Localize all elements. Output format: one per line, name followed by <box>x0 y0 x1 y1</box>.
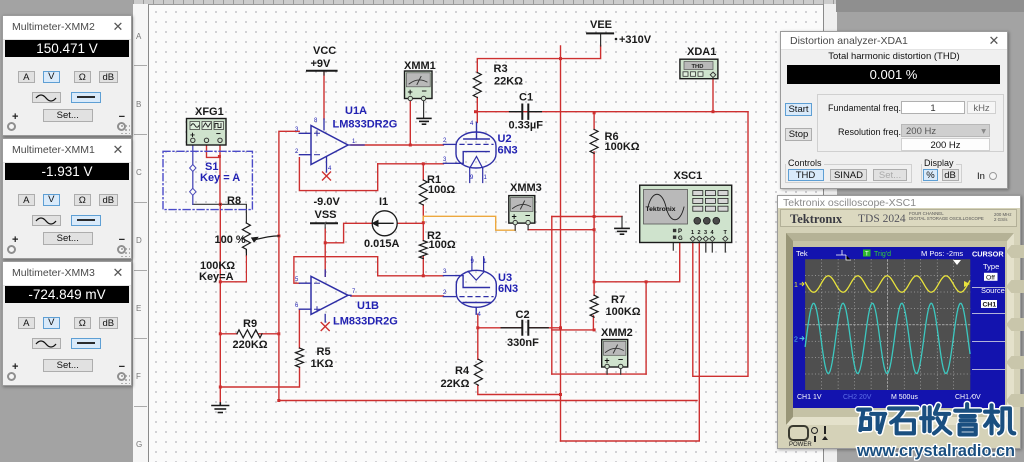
ground G3 (near scope) <box>615 228 629 234</box>
svg-text:2: 2 <box>443 138 447 144</box>
svg-text:I1: I1 <box>379 196 388 208</box>
resistor R2 <box>419 241 427 259</box>
wire xmm2 sense vertical <box>551 217 553 375</box>
wire VEE to R3 top <box>477 46 600 73</box>
wire U1A inv input feedback to cathode line <box>299 158 377 191</box>
wire R6 leads <box>593 113 595 217</box>
svg-text:100 %: 100 % <box>215 234 246 246</box>
wire XFG1 minus down to R8 top <box>219 145 221 204</box>
wire scope stubs 3 4 T <box>706 243 726 253</box>
XMM1 icon <box>405 71 433 101</box>
svg-text:CURSOR: CURSOR <box>972 250 1004 259</box>
svg-text:4: 4 <box>478 312 482 318</box>
wire U2 cathode line with R1 <box>378 163 444 165</box>
tube U3 <box>443 257 493 315</box>
XFG1 icon <box>187 119 227 146</box>
XMM2 icon <box>602 340 628 369</box>
svg-text:LM833DR2G: LM833DR2G <box>333 119 398 131</box>
wire VSS step to I1 <box>325 223 373 243</box>
blue labels <box>200 105 518 328</box>
svg-text:5: 5 <box>295 277 299 283</box>
wire S1 to R8 black horizontal <box>193 204 247 223</box>
waveform ch1 yellow <box>805 276 970 292</box>
grid area <box>805 259 970 390</box>
svg-text:VSS: VSS <box>315 209 337 221</box>
wire R2 bottom lead <box>422 256 424 276</box>
wire I1 right to R1R2 node <box>397 222 424 224</box>
wire R8 bottom horizontal <box>220 281 246 283</box>
svg-text:XMM1: XMM1 <box>404 60 436 72</box>
resistor R7 <box>590 295 598 317</box>
svg-text:1: 1 <box>483 259 487 265</box>
svg-text:C2: C2 <box>516 309 530 321</box>
svg-text:Key = A: Key = A <box>200 172 240 184</box>
svg-text:3: 3 <box>443 269 447 275</box>
wire R1 bottom lead <box>422 205 424 223</box>
op-amp U1B <box>299 270 351 322</box>
svg-text:4: 4 <box>328 166 332 172</box>
application background <box>133 0 836 462</box>
wire XMM2 right vertical <box>645 282 647 374</box>
power VEE symbol <box>587 32 613 34</box>
wire scope ch2 route <box>561 243 700 441</box>
Distortion analyzer-XDA1 window <box>780 31 1008 189</box>
resistor R9 horizontal <box>237 330 262 338</box>
wire XMM3 minus <box>528 229 594 231</box>
svg-text:6: 6 <box>295 303 299 309</box>
svg-text:www.crystalradio.cn: www.crystalradio.cn <box>856 441 1015 460</box>
ground G2 (XMM1) <box>417 118 431 124</box>
svg-text:220KΩ: 220KΩ <box>233 339 268 351</box>
Multimeter-XMM1 window <box>2 138 132 259</box>
svg-text:0.015A: 0.015A <box>364 238 400 250</box>
svg-text:P: P <box>678 229 682 235</box>
capacitor C2 <box>501 321 548 335</box>
svg-text:9: 9 <box>471 259 475 265</box>
svg-text:R4: R4 <box>455 365 470 377</box>
wire U1A plus input net (from R8 wiper vertical) <box>279 131 299 400</box>
wire XMM2 stubs <box>607 367 621 375</box>
svg-text:22KΩ: 22KΩ <box>441 378 470 390</box>
svg-text:Key=A: Key=A <box>199 271 234 283</box>
svg-text:XMM3: XMM3 <box>510 182 542 194</box>
svg-text:1: 1 <box>794 282 798 289</box>
svg-text:1: 1 <box>352 139 356 145</box>
resistor R4 <box>474 359 482 385</box>
svg-text:U1A: U1A <box>345 105 367 117</box>
S1 dashed selection box <box>163 151 252 209</box>
current source I1 <box>372 211 398 236</box>
svg-text:8: 8 <box>314 118 318 124</box>
wire XMM2 horizontal <box>552 373 646 375</box>
svg-text:Type: Type <box>983 262 999 271</box>
wire XMM1 plus down to output line <box>409 99 411 145</box>
right menu <box>981 262 1005 295</box>
wire XDA1 drop <box>712 77 714 112</box>
wire R5 top to U1B plus input <box>298 309 300 348</box>
resistor R6 <box>590 129 598 153</box>
svg-text:−: − <box>216 129 221 139</box>
wire node XFG-R8 vertical to ground <box>219 204 221 403</box>
right arrow buttons <box>1006 245 1024 258</box>
svg-text:XDA1: XDA1 <box>687 46 716 58</box>
svg-text:330nF: 330nF <box>507 337 539 349</box>
waveform ch2 cyan <box>805 303 970 373</box>
svg-text:+9V: +9V <box>311 58 332 70</box>
svg-text:G: G <box>678 236 683 242</box>
XDA1 icon <box>680 59 718 78</box>
svg-text:9: 9 <box>470 175 474 181</box>
no-connect X U1A <box>323 172 331 180</box>
wiper arrow <box>253 236 279 240</box>
wire VEE stub <box>600 33 602 46</box>
resistor R5 <box>296 348 304 367</box>
potentiometer R8 <box>220 204 279 281</box>
wire C2 left lead <box>478 327 522 329</box>
svg-text:T: T <box>865 252 869 258</box>
wire XFG1 mid terminal step <box>207 145 220 157</box>
svg-text:3: 3 <box>295 127 299 133</box>
Multimeter-XMM2 window <box>2 15 132 136</box>
Tektronix oscilloscope-XSC1 window <box>777 195 1021 449</box>
power VCC symbol <box>307 70 337 72</box>
no-connect X U1B <box>321 323 329 331</box>
svg-text:0.33µF: 0.33µF <box>509 120 544 132</box>
wire R7 net to scope G <box>594 243 680 282</box>
svg-text:−: − <box>525 211 530 221</box>
wire R7 top vertical <box>593 217 595 296</box>
svg-text:−: − <box>618 354 623 364</box>
watermark <box>840 390 1024 462</box>
Multimeter-XMM3 window <box>2 261 132 386</box>
svg-text:R8: R8 <box>227 195 241 207</box>
svg-text:CH1: CH1 <box>982 302 996 309</box>
wire XMM3 stubs <box>515 223 528 230</box>
svg-text:2: 2 <box>295 149 299 155</box>
wire scope ch1 route <box>693 112 748 377</box>
svg-text:+: + <box>408 87 413 97</box>
wire R9 left lead <box>220 333 237 335</box>
tube U2 <box>443 122 493 182</box>
wire R3 bottom lead / U2 plate <box>476 97 478 122</box>
capacitor C1 <box>510 105 542 119</box>
svg-text:100KΩ: 100KΩ <box>605 141 640 153</box>
wire R4 bottom to VEE vertical <box>478 385 561 394</box>
svg-text:VEE: VEE <box>590 19 612 31</box>
top marker <box>953 260 961 265</box>
node diamonds of S1 <box>190 165 196 196</box>
svg-text:6N3: 6N3 <box>498 283 518 295</box>
tiny blue pin numbers <box>295 118 488 318</box>
tube envelopes (drawn after internals for clean stroke) <box>456 132 496 168</box>
svg-text:M Pos: -2ms: M Pos: -2ms <box>921 249 963 258</box>
wire VEE long vertical <box>560 46 562 441</box>
svg-text:3: 3 <box>704 230 707 236</box>
svg-text:THD: THD <box>692 64 704 70</box>
svg-text:100Ω: 100Ω <box>429 239 456 251</box>
svg-text:Trig'd: Trig'd <box>874 251 891 258</box>
wire VCC down to U1A <box>323 71 325 119</box>
wire R1 top lead <box>422 164 424 180</box>
svg-text:6N3: 6N3 <box>498 145 518 157</box>
svg-text:+310V: +310V <box>619 34 652 46</box>
svg-text:R5: R5 <box>317 346 331 358</box>
wire bottom long feedback <box>279 400 697 402</box>
svg-text:3: 3 <box>443 157 447 163</box>
svg-text:1KΩ: 1KΩ <box>311 358 334 370</box>
svg-text:1: 1 <box>484 175 488 181</box>
svg-text:C1: C1 <box>519 92 533 104</box>
svg-text:7: 7 <box>352 289 356 295</box>
wire VCC stub <box>323 71 325 75</box>
switch S1 line <box>192 145 194 204</box>
svg-text:XFG1: XFG1 <box>195 106 224 118</box>
svg-text:R7: R7 <box>611 294 625 306</box>
svg-text:Off: Off <box>986 274 995 281</box>
svg-text:1: 1 <box>691 230 694 236</box>
svg-text:VCC: VCC <box>313 45 336 57</box>
POWER button <box>788 425 808 441</box>
svg-text:-9.0V: -9.0V <box>314 196 341 208</box>
wire R4 top lead <box>477 328 479 360</box>
wire C2 out to R7 bottom <box>552 316 594 330</box>
wire VSS down to U1B vcc pin <box>324 243 326 276</box>
resistor R3 <box>473 73 481 98</box>
svg-text:2: 2 <box>443 290 447 296</box>
svg-text:+: + <box>512 212 517 222</box>
svg-text:R9: R9 <box>243 318 257 330</box>
wire XMM1 minus to ground <box>423 99 425 118</box>
wire scope P jog <box>673 233 680 250</box>
wire R6 bottom net horizontal <box>552 216 622 218</box>
header strip <box>780 209 1017 227</box>
wire orange to XMM3 plus <box>423 216 515 230</box>
svg-text:−: − <box>422 86 427 96</box>
svg-text:CH1 1V: CH1 1V <box>797 394 822 401</box>
svg-text:22KΩ: 22KΩ <box>494 76 523 88</box>
svg-text:U1B: U1B <box>357 300 379 312</box>
wire R9 right lead <box>259 333 279 335</box>
XSC1 icon <box>640 185 732 242</box>
svg-text:U2: U2 <box>498 133 512 145</box>
svg-text:LM833DR2G: LM833DR2G <box>333 316 398 328</box>
wire U1A output to U2 grid <box>351 144 443 146</box>
wire U1B inv feedback <box>294 257 444 284</box>
wire U3 plate node down <box>477 314 479 328</box>
svg-text:XSC1: XSC1 <box>674 170 703 182</box>
svg-text:Tek: Tek <box>796 249 808 258</box>
text labels: black component labels <box>195 19 716 390</box>
wire plate output line <box>476 111 749 113</box>
svg-text:100Ω: 100Ω <box>428 184 455 196</box>
svg-text:XMM2: XMM2 <box>601 327 633 339</box>
XMM3 icon <box>509 196 535 225</box>
bezel shading <box>786 233 1014 425</box>
svg-text:2: 2 <box>698 230 701 236</box>
svg-text:4: 4 <box>470 121 474 127</box>
power VSS symbol <box>311 222 337 224</box>
ground G1 (left, below R9) <box>212 403 229 413</box>
svg-text:R3: R3 <box>494 63 508 75</box>
svg-text:100KΩ: 100KΩ <box>606 306 641 318</box>
wire U1B output to U3 grid <box>351 295 443 297</box>
wire R5 bottom to ground net <box>220 368 299 388</box>
wire C2 right lead <box>528 327 560 329</box>
resistor R1 <box>419 180 427 205</box>
wire ground G3 tap <box>621 217 623 229</box>
wire R2 top lead <box>422 223 424 241</box>
op-amp U1A <box>299 119 364 172</box>
screen <box>793 247 1005 408</box>
svg-text:Tektronix: Tektronix <box>646 206 676 213</box>
svg-text:2: 2 <box>794 337 798 344</box>
